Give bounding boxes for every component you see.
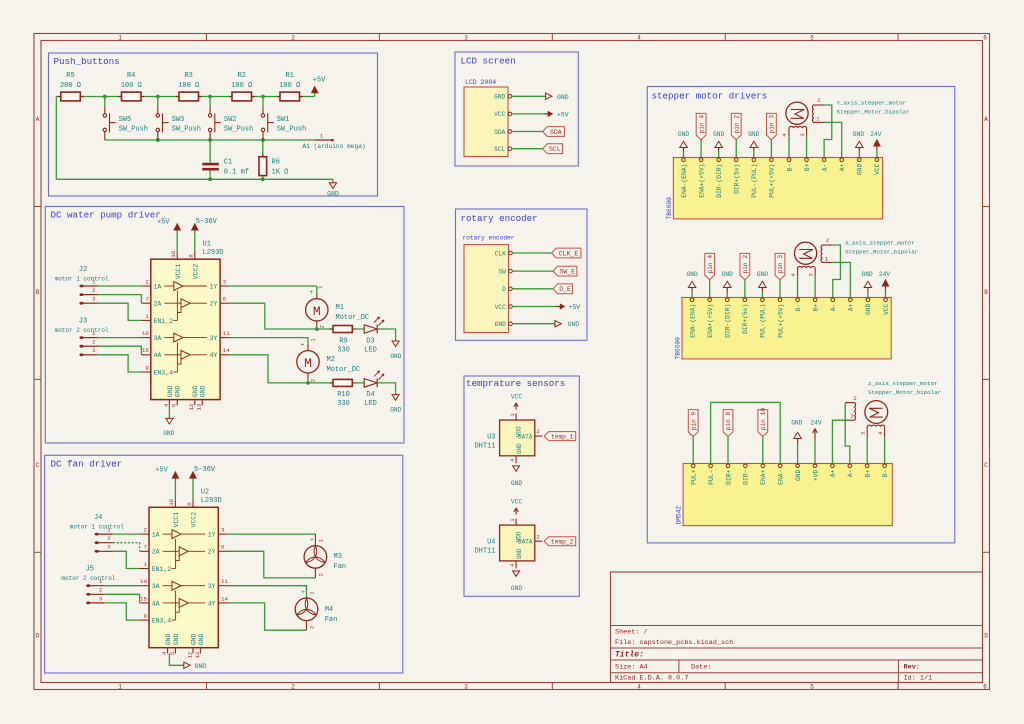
svg-text:GND: GND	[757, 271, 768, 278]
svg-text:3: 3	[859, 431, 866, 435]
wire J2 pin2 to 2A	[98, 295, 142, 304]
svg-text:1A: 1A	[152, 532, 160, 539]
wire PUL- ENA- bridge	[711, 402, 781, 463]
svg-text:VCC1: VCC1	[175, 264, 182, 280]
wire 1Y to M1	[229, 285, 316, 287]
svg-text:1: 1	[825, 255, 829, 262]
svg-text:pin 8: pin 8	[725, 411, 732, 430]
motor M2 Motor_DC	[297, 338, 360, 383]
svg-text:24V: 24V	[870, 131, 881, 138]
svg-text:16: 16	[168, 498, 175, 505]
svg-text:15: 15	[142, 347, 149, 354]
U1 ground pins 4 5 12 13	[163, 385, 207, 410]
svg-text:rotary encoder: rotary encoder	[461, 213, 538, 224]
power 24V y157.5	[870, 131, 881, 158]
svg-text:7: 7	[144, 544, 148, 551]
svg-text:4: 4	[877, 431, 884, 435]
label pin 9	[688, 410, 698, 464]
svg-text:VCC: VCC	[511, 394, 522, 401]
svg-text:1: 1	[118, 684, 122, 691]
ground TB6600 y297.5 pin2	[757, 271, 768, 298]
svg-text:GND: GND	[862, 271, 873, 278]
svg-text:4A: 4A	[152, 600, 160, 607]
svg-text:2: 2	[291, 35, 295, 42]
U4 labels	[474, 539, 495, 556]
svg-text:4: 4	[161, 651, 168, 655]
stepper motor Y_axis_stepper_motor	[781, 97, 823, 137]
power 24V y297.5	[879, 271, 890, 298]
svg-text:SW1: SW1	[277, 116, 290, 124]
svg-text:SDA: SDA	[494, 129, 505, 136]
svg-text:DC fan driver: DC fan driver	[51, 459, 123, 470]
svg-text:Stepper_Motor_bipolar: Stepper_Motor_bipolar	[845, 249, 918, 256]
svg-text:SW: SW	[498, 268, 506, 275]
title block sheet info	[615, 629, 733, 647]
power +5V U2	[155, 467, 178, 479]
svg-text:1: 1	[320, 132, 324, 139]
ground TB6600 y297.5 pin0	[687, 271, 698, 298]
resistor R1	[277, 72, 303, 101]
resistor R9 330	[330, 326, 356, 355]
svg-text:1: 1	[92, 330, 96, 337]
svg-text:DM542: DM542	[676, 506, 683, 525]
svg-text:Size: A4: Size: A4	[615, 664, 648, 672]
resistor R5	[58, 72, 84, 101]
svg-text:2: 2	[92, 287, 96, 294]
svg-text:D_E: D_E	[559, 286, 571, 293]
svg-text:temprature sensors: temprature sensors	[466, 378, 565, 389]
svg-text:motor 1 control: motor 1 control	[55, 275, 109, 282]
svg-text:D: D	[36, 633, 40, 640]
svg-text:3: 3	[92, 347, 96, 354]
svg-text:A-: A-	[821, 164, 828, 172]
svg-text:C: C	[984, 462, 988, 469]
label temp_1	[544, 432, 576, 441]
svg-text:U3: U3	[487, 434, 495, 442]
U3 pin GND	[509, 443, 523, 463]
svg-text:PUL+(+5V): PUL+(+5V)	[777, 304, 784, 338]
TB6600 pins y297.5	[689, 298, 889, 338]
wire lcd sda	[512, 131, 543, 133]
lcd pins	[494, 94, 512, 153]
wire A- coil y157.5	[824, 105, 832, 158]
wire J2 pin3 to EN1_2	[98, 303, 142, 320]
stepper motor labels X_axis_stepper_motor	[845, 240, 918, 256]
svg-text:temp_1: temp_1	[551, 433, 574, 440]
wire A- coil y297.5	[832, 245, 840, 298]
svg-text:100 Ω: 100 Ω	[231, 82, 252, 90]
svg-text:motor 1 control: motor 1 control	[70, 524, 124, 531]
U1 pin VCC1 16	[170, 230, 182, 279]
stepper motor z_axis	[845, 395, 887, 438]
svg-text:GND: GND	[516, 443, 523, 454]
label pin 3 y297.5	[775, 253, 785, 297]
svg-text:1: 1	[850, 413, 854, 420]
svg-text:2: 2	[817, 97, 821, 104]
ground D3	[390, 341, 401, 360]
rotary module body	[464, 245, 509, 333]
svg-text:GND: GND	[327, 190, 339, 197]
U3 pin VDD	[509, 413, 523, 438]
svg-text:A1 (arduino mega): A1 (arduino mega)	[303, 143, 366, 150]
svg-text:PUL-(PUL): PUL-(PUL)	[760, 304, 767, 338]
stepper driver TB6600 body at y297.5	[682, 298, 891, 359]
connector J4	[70, 514, 124, 553]
wire left drop	[55, 97, 57, 180]
svg-text:+VD: +VD	[812, 469, 819, 481]
svg-text:1Y: 1Y	[208, 532, 216, 539]
stepper motor drivers block box	[647, 87, 955, 543]
svg-text:B: B	[36, 289, 40, 296]
led D4	[364, 371, 384, 408]
ground TB6600 y157.5 pin2	[748, 131, 759, 158]
svg-text:rotary encoder: rotary encoder	[463, 234, 515, 241]
svg-text:3: 3	[107, 544, 111, 551]
svg-text:+5V: +5V	[157, 218, 170, 226]
svg-text:motor 2 control: motor 2 control	[55, 327, 109, 334]
svg-text:9: 9	[145, 364, 149, 371]
svg-text:VCC2: VCC2	[192, 264, 199, 280]
svg-text:4Y: 4Y	[208, 600, 216, 607]
svg-text:L293D: L293D	[203, 249, 224, 257]
U2 pin VCC2 8	[186, 478, 198, 527]
title block version id	[615, 675, 932, 683]
svg-text:11: 11	[223, 330, 230, 337]
svg-text:M2: M2	[327, 356, 335, 364]
svg-text:2: 2	[144, 527, 148, 534]
svg-text:24V: 24V	[879, 271, 890, 278]
svg-text:SDA: SDA	[550, 129, 562, 136]
svg-text:11: 11	[221, 578, 228, 585]
U3 labels	[474, 434, 495, 451]
svg-text:1: 1	[92, 278, 96, 285]
svg-text:2: 2	[536, 428, 539, 435]
border column ticks	[207, 34, 899, 690]
svg-text:2Y: 2Y	[210, 301, 218, 308]
svg-text:SCL: SCL	[494, 146, 505, 153]
svg-text:PUL-: PUL-	[708, 470, 715, 485]
U2 reference labels	[201, 489, 222, 506]
svg-text:B-: B-	[795, 304, 802, 312]
svg-text:pin 3: pin 3	[777, 255, 784, 274]
wire J5 pin1 to 3A	[104, 585, 140, 587]
svg-text:J4: J4	[94, 514, 102, 522]
svg-text:3: 3	[799, 133, 806, 137]
svg-text:SW_Push: SW_Push	[119, 126, 148, 134]
svg-text:+5V: +5V	[313, 77, 326, 85]
lcd screen block box	[455, 52, 578, 166]
wire R10 to D4	[356, 382, 365, 384]
svg-text:D4: D4	[366, 391, 374, 399]
svg-text:U4: U4	[487, 539, 495, 547]
svg-text:16: 16	[170, 250, 177, 257]
ground U4	[511, 571, 522, 592]
svg-text:GND: GND	[163, 430, 174, 437]
svg-text:C: C	[36, 462, 40, 469]
svg-text:CLK: CLK	[495, 250, 506, 257]
wire z B+ coil	[866, 438, 868, 464]
svg-text:DIR+: DIR+	[725, 469, 732, 484]
svg-text:1: 1	[145, 313, 149, 320]
wire U1 gnd stem	[168, 405, 170, 418]
resistor R6	[259, 140, 288, 179]
svg-text:A: A	[36, 116, 40, 123]
svg-text:LED: LED	[364, 346, 377, 354]
svg-text:3A: 3A	[152, 583, 160, 590]
svg-text:1: 1	[99, 578, 103, 585]
U2 ground pins 4 5 12 13	[161, 633, 205, 658]
svg-text:LED: LED	[364, 400, 377, 408]
U2 pin VCC1 16	[168, 478, 180, 527]
svg-text:GND: GND	[175, 385, 182, 397]
svg-text:pin 3: pin 3	[769, 115, 776, 134]
svg-text:Sheet: /: Sheet: /	[615, 629, 648, 637]
svg-text:2: 2	[92, 339, 96, 346]
switch SW5 SW_Push	[103, 97, 148, 141]
pin A1 arduino mega	[303, 132, 366, 150]
svg-text:2: 2	[107, 535, 111, 542]
switch SW3 SW_Push	[156, 97, 201, 141]
wire A+ coil y157.5	[824, 122, 842, 157]
wire J4 pin2 to 2A	[113, 543, 140, 552]
svg-text:2A: 2A	[152, 549, 160, 556]
svg-text:Title:: Title:	[615, 651, 644, 660]
svg-text:D: D	[984, 633, 988, 640]
svg-text:Fan: Fan	[334, 563, 347, 571]
svg-text:GND: GND	[511, 480, 522, 487]
svg-text:M: M	[304, 356, 312, 371]
svg-text:12: 12	[188, 403, 195, 410]
svg-text:Stepper_Motor_bipolar: Stepper_Motor_bipolar	[868, 389, 941, 396]
wire J3 pin1 to 3A	[98, 337, 142, 339]
svg-text:3: 3	[221, 527, 225, 534]
svg-text:2: 2	[291, 684, 295, 691]
connector J2	[55, 266, 109, 305]
svg-text:stepper motor drivers: stepper motor drivers	[652, 91, 768, 102]
svg-text:6: 6	[223, 296, 227, 303]
node M1 bottom junction	[315, 327, 319, 331]
svg-text:B-: B-	[786, 164, 793, 172]
wire 4Y to M2 bottom	[229, 355, 308, 383]
svg-text:DHT11: DHT11	[474, 443, 495, 451]
svg-text:GND: GND	[853, 131, 864, 138]
U1 left pins	[142, 278, 174, 376]
title block frame	[611, 572, 983, 683]
svg-text:Y_axis_stepper_motor: Y_axis_stepper_motor	[837, 100, 907, 107]
svg-text:200 Ω: 200 Ω	[60, 82, 81, 90]
svg-text:D: D	[502, 286, 506, 293]
svg-text:GND: GND	[687, 271, 698, 278]
svg-text:DATA: DATA	[518, 539, 533, 546]
svg-text:U1: U1	[203, 241, 211, 249]
svg-text:2: 2	[308, 626, 315, 629]
svg-text:R1: R1	[285, 72, 293, 80]
wire 3Y to M2	[229, 338, 308, 344]
svg-text:GND: GND	[791, 420, 802, 427]
svg-text:3Y: 3Y	[210, 335, 218, 342]
power +5V top	[312, 77, 326, 97]
svg-text:3: 3	[464, 35, 468, 42]
sensor U4 DHT11 body	[500, 525, 535, 561]
svg-text:+: +	[310, 536, 314, 543]
svg-text:2: 2	[310, 379, 317, 382]
U4 pin GND	[509, 548, 523, 568]
ground TB6600 y297.5 pin1	[722, 271, 733, 298]
title block size date rev	[615, 664, 920, 672]
svg-text:PUL+(+5V): PUL+(+5V)	[769, 164, 776, 198]
svg-text:5: 5	[810, 35, 814, 42]
U3 pin DATA	[518, 428, 542, 440]
svg-text:3: 3	[223, 278, 227, 285]
svg-text:A+: A+	[830, 469, 837, 477]
svg-text:R4: R4	[127, 72, 135, 80]
svg-text:GND: GND	[192, 385, 199, 397]
svg-text:DIR-: DIR-	[743, 470, 750, 485]
wire switch bus	[105, 139, 315, 141]
DM542 pins	[691, 464, 889, 485]
svg-text:5-36V: 5-36V	[196, 218, 218, 226]
svg-text:SW_Push: SW_Push	[172, 126, 201, 134]
svg-text:SW_Push: SW_Push	[277, 126, 306, 134]
led D3	[364, 317, 384, 354]
motor M1 Motor_DC	[306, 285, 370, 329]
svg-text:pin 10: pin 10	[760, 408, 767, 431]
svg-text:GND: GND	[748, 131, 759, 138]
svg-text:M1: M1	[336, 304, 344, 312]
wire lcd gnd	[512, 95, 546, 97]
svg-text:2: 2	[145, 278, 149, 285]
svg-text:2: 2	[317, 573, 324, 576]
svg-text:R5: R5	[66, 72, 74, 80]
svg-text:10: 10	[142, 330, 149, 337]
svg-text:12: 12	[186, 651, 193, 658]
rotary pins	[495, 250, 513, 328]
svg-text:VCC2: VCC2	[191, 512, 198, 528]
wire J5 pin3 to EN3_4	[104, 603, 140, 620]
svg-text:1: 1	[107, 527, 111, 534]
svg-text:R3: R3	[184, 72, 192, 80]
svg-text:4: 4	[790, 273, 797, 277]
svg-text:L293D: L293D	[201, 497, 222, 505]
svg-text:GND: GND	[557, 94, 569, 101]
svg-text:KiCad E.D.A. 8.0.7: KiCad E.D.A. 8.0.7	[615, 675, 688, 683]
wire J4 pin3 to EN1_2	[113, 551, 140, 568]
wire B- coil y157.5	[788, 136, 790, 157]
dc fan driver block box	[45, 455, 403, 673]
svg-text:EN3,4: EN3,4	[152, 618, 172, 625]
svg-text:GND: GND	[713, 131, 724, 138]
svg-text:SW2: SW2	[224, 116, 237, 124]
svg-text:GND: GND	[173, 633, 180, 645]
label pin 4 y297.5	[705, 253, 715, 297]
svg-text:+5V: +5V	[557, 111, 569, 118]
svg-text:DHT11: DHT11	[474, 548, 495, 556]
svg-text:motor 2 control: motor 2 control	[61, 575, 115, 582]
svg-text:+5V: +5V	[155, 467, 168, 475]
svg-text:Fan: Fan	[325, 616, 338, 624]
svg-text:VCC: VCC	[511, 499, 522, 506]
svg-text:330: 330	[337, 346, 350, 354]
wire J5 pin2 to 4A	[104, 594, 139, 603]
U4 pin DATA	[518, 533, 542, 545]
svg-text:A-: A-	[847, 470, 854, 478]
ground U1	[163, 418, 174, 436]
svg-text:A+: A+	[848, 303, 855, 311]
svg-text:4A: 4A	[154, 352, 162, 359]
svg-text:GND: GND	[516, 548, 523, 559]
svg-text:pin 2: pin 2	[733, 115, 740, 134]
label D_E	[553, 284, 572, 294]
svg-text:X_axis_stepper_motor: X_axis_stepper_motor	[845, 240, 915, 247]
wire rotary d	[512, 288, 553, 290]
svg-text:4: 4	[637, 684, 641, 691]
svg-text:LCD screen: LCD screen	[461, 56, 516, 67]
svg-text:14: 14	[223, 347, 230, 354]
wire R9 to D3	[356, 328, 365, 330]
svg-text:DC water pump driver: DC water pump driver	[51, 210, 161, 221]
wire z B- coil	[884, 438, 886, 464]
U1 pin VCC2 8	[188, 230, 200, 279]
border column numbers	[118, 35, 987, 691]
svg-text:+: +	[309, 289, 313, 296]
svg-text:7: 7	[145, 296, 149, 303]
lcd module body	[464, 87, 508, 157]
U2 left pins	[140, 527, 172, 625]
svg-text:8: 8	[188, 254, 195, 258]
svg-text:3: 3	[99, 595, 103, 602]
label temp_2	[544, 537, 576, 546]
label SW_E	[553, 266, 577, 276]
svg-text:15: 15	[140, 595, 147, 602]
svg-text:B+: B+	[812, 303, 819, 311]
svg-text:5-36V: 5-36V	[194, 466, 216, 474]
svg-text:GND: GND	[495, 321, 506, 328]
wire 4Y to M4 bottom	[228, 603, 307, 630]
svg-text:GND: GND	[165, 633, 172, 645]
stepper driver TB6600 body at y157.5	[673, 158, 882, 219]
node junctions bottom rail	[208, 177, 264, 181]
wire J2 pin1 to 1A	[98, 285, 142, 287]
svg-text:GND: GND	[678, 131, 689, 138]
svg-text:1Y: 1Y	[210, 283, 218, 290]
svg-text:U2: U2	[201, 489, 209, 497]
svg-text:6: 6	[983, 35, 987, 42]
wire B+ coil y157.5	[806, 136, 808, 157]
svg-text:LCD 2004: LCD 2004	[465, 79, 496, 86]
fan M3	[304, 534, 346, 578]
wire lcd vcc	[512, 113, 545, 115]
wire lcd scl	[512, 148, 543, 150]
svg-text:ENA-(ENA): ENA-(ENA)	[689, 304, 696, 338]
svg-text:2Y: 2Y	[208, 549, 216, 556]
svg-text:GND: GND	[200, 385, 207, 397]
rotary encoder block box	[456, 209, 588, 340]
svg-text:4: 4	[781, 133, 788, 137]
svg-text:1: 1	[144, 561, 148, 568]
U1 internal buffers	[164, 282, 207, 372]
power VCC U3	[511, 394, 522, 410]
svg-text:GND: GND	[390, 353, 401, 360]
svg-text:GND: GND	[511, 585, 522, 592]
power +5V rotary	[556, 304, 580, 311]
svg-text:SW_Push: SW_Push	[224, 126, 253, 134]
ground U2	[184, 662, 207, 670]
svg-text:3Y: 3Y	[208, 583, 216, 590]
svg-text:EN3,4: EN3,4	[154, 369, 174, 376]
svg-text:M3: M3	[334, 553, 342, 561]
svg-text:3: 3	[464, 684, 468, 691]
svg-text:GND: GND	[795, 469, 802, 481]
